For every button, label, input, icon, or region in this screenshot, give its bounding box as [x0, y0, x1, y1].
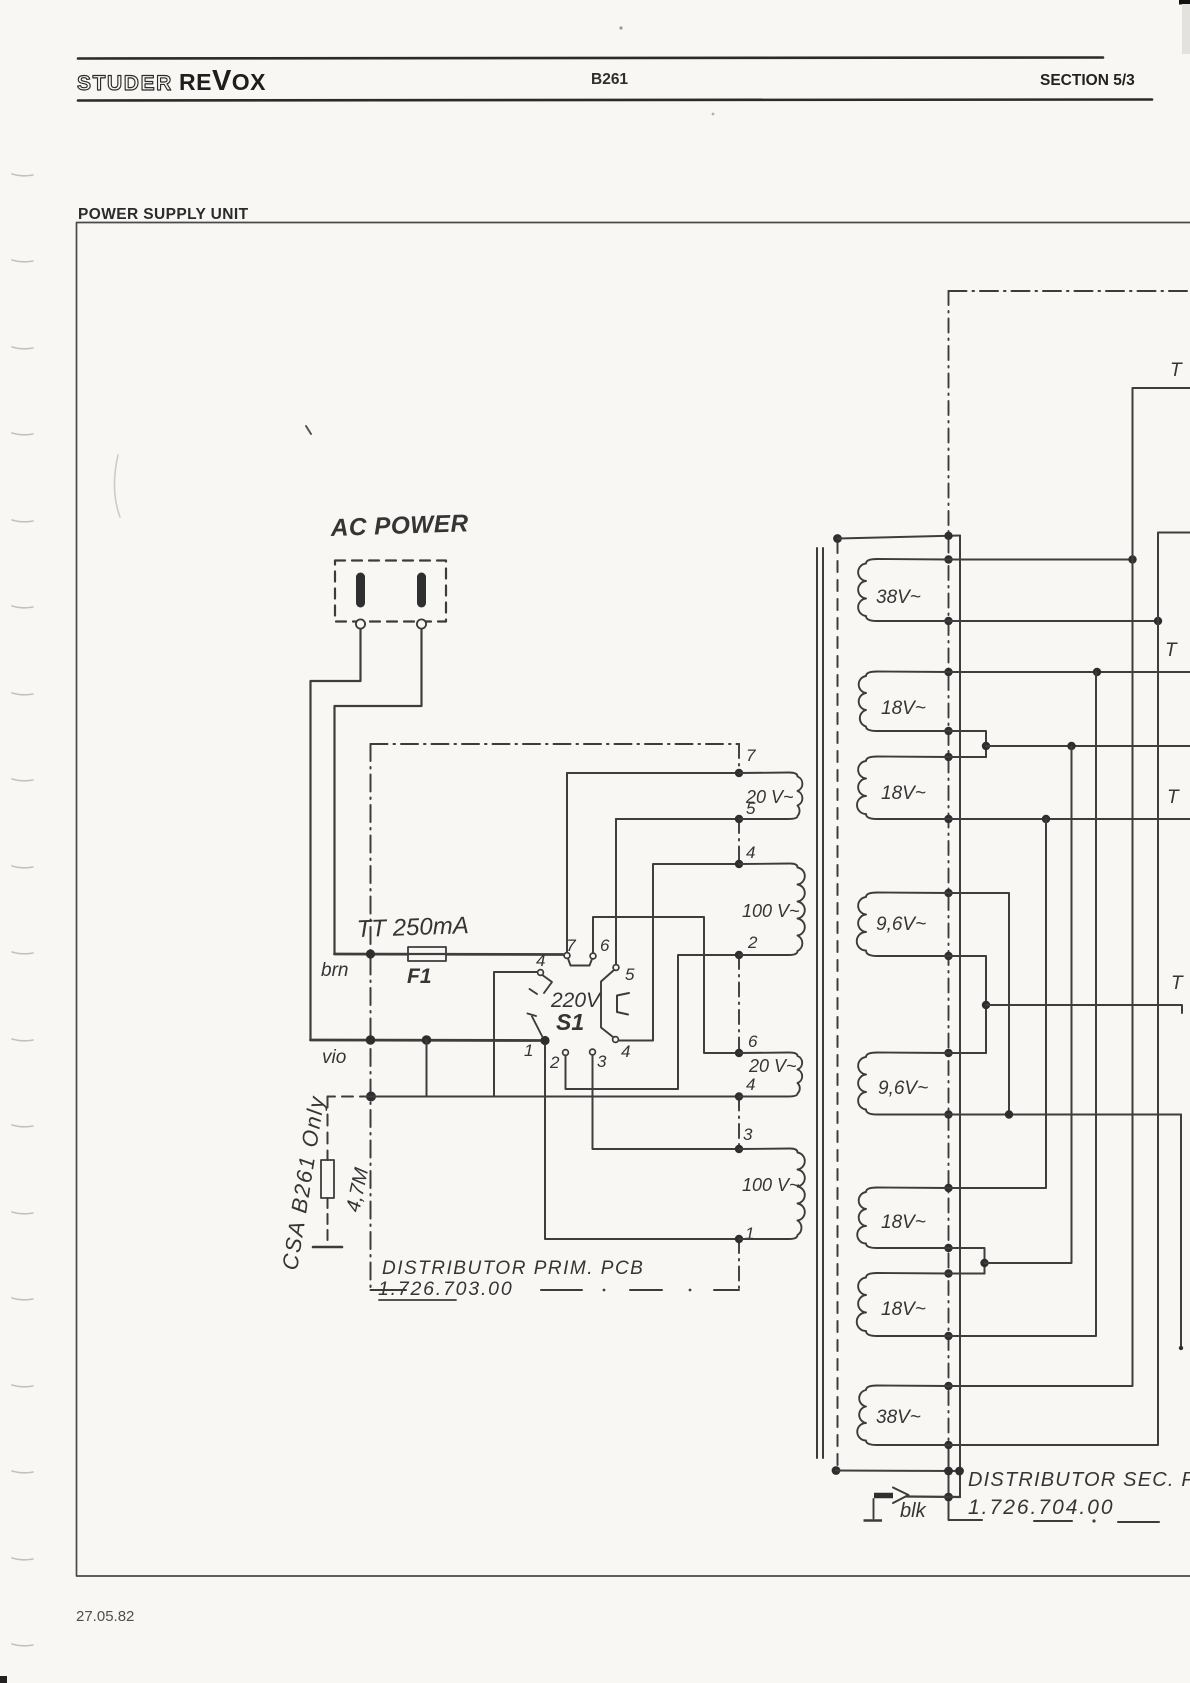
S1 contact 7: [564, 953, 570, 959]
node jumper joint: [980, 1259, 988, 1267]
svg-text:POWER SUPPLY UNIT: POWER SUPPLY UNIT: [78, 206, 249, 223]
svg-text:38V~: 38V~: [876, 587, 921, 608]
wire branch row (exits right): [986, 745, 1190, 747]
wire exit row (ends with stub): [986, 1005, 1182, 1013]
primary pin 5: [735, 815, 743, 823]
svg-text:6: 6: [748, 1032, 758, 1051]
sec pin 18V-4 bottom: [944, 1332, 952, 1340]
wire vio branch down to row 4: [371, 1040, 427, 1097]
scan speck: [712, 113, 715, 116]
svg-text:4: 4: [621, 1042, 630, 1061]
sec pin 38V-1 top: [944, 555, 952, 563]
screen top node: [833, 534, 842, 543]
underline under 1.726.: [379, 1299, 456, 1301]
svg-text:blk: blk: [900, 1500, 927, 1522]
wire 18V-2 bottom row (exits right): [949, 818, 1190, 820]
wire 38V-1 top row to T-bus: [949, 559, 1133, 561]
winding 38V-2 coil: [857, 1386, 948, 1446]
pin 2 terminal circle: [417, 619, 426, 628]
primary terminal axis (dash-dot, box right edge): [738, 744, 740, 1290]
core lamination line 2: [822, 548, 824, 1458]
svg-text:2: 2: [747, 933, 758, 952]
svg-text:DISTRIBUTOR PRIM. PCB: DISTRIBUTOR PRIM. PCB: [382, 1258, 644, 1279]
sec pin 18V-1 top: [944, 668, 952, 676]
wire 9,6V-1 top to down-bus: [949, 893, 1010, 1115]
pin 1 terminal circle: [356, 619, 365, 628]
S1 contact 4 (bottom right): [613, 1037, 619, 1043]
link contacts 5-4 (right): [601, 970, 614, 1037]
svg-text:3: 3: [743, 1125, 753, 1144]
svg-text:7: 7: [746, 746, 756, 765]
svg-text:4: 4: [746, 843, 755, 862]
wire 38V-1 bottom row to T-bus: [949, 620, 1159, 622]
primary winding 100V (3-1): [739, 1149, 805, 1240]
svg-text:TT 250mA: TT 250mA: [356, 912, 469, 943]
wire vio row: [311, 1039, 542, 1042]
svg-text:STUDER: STUDER: [77, 72, 173, 95]
svg-text:vio: vio: [322, 1047, 346, 1068]
S1 contact 3: [590, 1049, 596, 1055]
bottom-left corner black mark: [0, 1676, 7, 1683]
node at 1009: [1005, 1110, 1013, 1118]
scan speck: [619, 26, 622, 29]
primary pin 4: [735, 860, 743, 868]
wire 18V-2 top lead: [949, 756, 987, 758]
svg-text:DISTRIBUTOR SEC. PC: DISTRIBUTOR SEC. PC: [968, 1469, 1190, 1491]
svg-text:100 V~: 100 V~: [742, 901, 800, 921]
primary pin 1: [735, 1235, 743, 1243]
node vio branch: [422, 1035, 432, 1045]
node CSA tap on box edge: [366, 1092, 376, 1102]
winding 18V-1 coil: [859, 672, 949, 732]
primary pin 4': [735, 1092, 743, 1100]
screen bottom node: [832, 1466, 841, 1475]
svg-text:4: 4: [746, 1075, 755, 1094]
box top edge: [371, 743, 740, 745]
sec pin 9,6V-2 bottom: [944, 1110, 952, 1118]
box top edge: [949, 290, 1190, 292]
wire screen top to bus: [838, 536, 961, 539]
ground (CSA): [313, 1246, 342, 1249]
sec pin 18V-4 top: [944, 1269, 952, 1277]
sec pin 18V-1 bottom: [944, 727, 952, 735]
wire S1-7 riser to primary pin 7: [566, 773, 568, 953]
node exit joint: [982, 1001, 990, 1009]
svg-text:3: 3: [597, 1052, 607, 1071]
sec pin 38V-2 bottom: [944, 1441, 952, 1449]
wire S1-4 (top left) to row 4: [494, 972, 538, 1097]
rotor arm at contact 4: [543, 976, 552, 994]
dashed wire to resistor: [328, 1096, 372, 1098]
svg-text:18V~: 18V~: [881, 783, 926, 804]
S1 contact 6: [590, 953, 596, 959]
svg-text:1.726.704.00: 1.726.704.00: [968, 1496, 1115, 1519]
schematic frame: [77, 223, 1190, 1577]
node at 1134: [1128, 555, 1136, 563]
svg-text:18V~: 18V~: [881, 1299, 926, 1320]
sec pin 18V-2 top: [944, 753, 952, 761]
svg-text:9,6V~: 9,6V~: [878, 1078, 928, 1099]
wire 18V-4 top to jumper: [949, 1273, 985, 1275]
winding 18V-4 coil: [857, 1273, 949, 1336]
svg-text:1.726.703.00: 1.726.703.00: [378, 1278, 513, 1300]
svg-text:SECTION 5/3: SECTION 5/3: [1040, 72, 1135, 89]
switch position bracket mark: [617, 993, 629, 1015]
bus vertical (screen/ground bus): [959, 536, 961, 1498]
S1 contact 4 (top left): [538, 970, 544, 976]
S1 contact 2: [563, 1050, 569, 1056]
wire blk row: [906, 1495, 960, 1498]
primary pin 7: [735, 769, 743, 777]
rotor arm at contact 1: [532, 1017, 542, 1037]
wire pin2 to vio node: [335, 629, 422, 953]
wire 18V-1 top row (exits right): [949, 671, 1190, 673]
S1 contact 1 (node, vio): [540, 1036, 549, 1045]
node axis bottom row: [944, 1467, 953, 1476]
node at 1097: [1093, 668, 1101, 676]
box left edge: [370, 744, 372, 1290]
svg-text:18V~: 18V~: [881, 1212, 926, 1233]
box left edge / secondary terminal axis: [948, 291, 950, 1442]
svg-text:4,7M: 4,7M: [342, 1166, 373, 1214]
node vio/box junction: [366, 1035, 376, 1045]
AC plug connector J1 (dashed outline): [335, 561, 446, 622]
underline dashes: [1034, 1520, 1072, 1522]
svg-text:brn: brn: [321, 960, 348, 981]
stub down at right: [1180, 1115, 1182, 1349]
sec pin 18V-3 top: [944, 1184, 952, 1192]
winding 9,6V-2 coil: [858, 1053, 948, 1115]
axis bottom solid segment: [949, 1445, 983, 1520]
svg-text:REVOX: REVOX: [179, 65, 266, 97]
jumper 9,6V-1 bottom down: [949, 956, 987, 1053]
sec pin 18V-3 bottom: [944, 1244, 952, 1252]
svg-text:20 V~: 20 V~: [748, 1056, 797, 1076]
wire screen bottom to bus: [836, 1470, 960, 1473]
plug pin 1 (live blade): [356, 577, 365, 603]
plug pin 2 (neutral blade): [417, 577, 426, 603]
corner registration black mark top right: [1179, 0, 1190, 5]
svg-text:4: 4: [536, 951, 545, 970]
node at 1158: [1154, 617, 1162, 625]
svg-text:5: 5: [625, 965, 635, 984]
svg-text:F1: F1: [407, 965, 432, 988]
dashed wire resistor to ground: [327, 1198, 329, 1244]
node bus at bottom row: [955, 1467, 964, 1476]
svg-text:6: 6: [600, 936, 610, 955]
chassis ground (blk): [873, 1499, 875, 1519]
svg-text:27.05.82: 27.05.82: [76, 1608, 134, 1625]
node jumper joint: [982, 742, 990, 750]
svg-text:1: 1: [745, 1224, 754, 1243]
svg-text:38V~: 38V~: [876, 1407, 921, 1428]
svg-text:9,6V~: 9,6V~: [876, 914, 926, 935]
wire jumper row to up-bus: [985, 746, 1072, 1263]
stray pen tick: [306, 426, 311, 434]
box bottom edge: [371, 1289, 407, 1291]
wire primary row 7: [567, 772, 739, 774]
primary pin 6: [735, 1049, 743, 1057]
node at 1071: [1067, 742, 1075, 750]
wire pin1 to brn node: [311, 629, 361, 1039]
node bus top: [944, 532, 952, 540]
wire S1-1 to primary pin 1: [545, 1045, 739, 1239]
primary winding 20V (6-4'): [739, 1053, 802, 1097]
node brn/box junction: [366, 949, 375, 958]
link contacts 7-6: [568, 959, 592, 966]
electrostatic screen (dashed): [837, 542, 839, 1468]
svg-text:T: T: [1171, 973, 1184, 994]
wire 9,6V-2 bottom row: [949, 1114, 1182, 1116]
winding 18V-3 coil: [857, 1188, 948, 1249]
header top rule: [78, 58, 1103, 59]
primary winding 20V (7-5): [739, 773, 802, 820]
primary pin 3: [735, 1145, 743, 1153]
winding 18V-2 coil: [857, 757, 949, 820]
core lamination line 1: [816, 548, 818, 1458]
arrow on blk wire: [893, 1488, 909, 1504]
wire S1-2 to primary pin 2: [566, 955, 740, 1089]
svg-text:T: T: [1167, 787, 1180, 808]
wire S1-4 (bottom right) to primary pin 4: [619, 864, 740, 1041]
wire 38V-2 top to up-bus, exits right at top: [949, 388, 1190, 1386]
wire row 4 to primary pin 4': [371, 1096, 739, 1098]
wire primary row 5: [616, 818, 739, 820]
svg-text:18V~: 18V~: [881, 698, 926, 719]
wire 18V-4 bottom to up-bus: [949, 672, 1097, 1336]
header bottom rule: [78, 100, 1152, 101]
sec pin 9,6V-2 top: [944, 1049, 952, 1057]
node at 1046: [1042, 815, 1050, 823]
svg-text:T: T: [1165, 640, 1178, 661]
sec pin 38V-2 top: [944, 1382, 952, 1390]
wire S1-6 to primary pin 6: [593, 917, 739, 1053]
primary winding 100V (4-2): [739, 864, 805, 956]
winding 9,6V-1 coil: [857, 893, 949, 957]
svg-text:20 V~: 20 V~: [745, 787, 794, 807]
wire S1-5 riser to primary pin 5: [615, 819, 617, 965]
svg-text:2: 2: [549, 1053, 560, 1072]
wire brn row: [335, 953, 564, 956]
resistor 4,7M: [321, 1160, 334, 1198]
sec pin 18V-2 bottom: [944, 815, 952, 823]
sec pin 9,6V-1 top: [944, 889, 952, 897]
fuse F1 (TT 250mA): [408, 947, 446, 961]
svg-text:B261: B261: [591, 71, 628, 88]
winding 38V-1 coil: [858, 559, 948, 621]
svg-text:AC POWER: AC POWER: [329, 510, 469, 542]
binder edge tick marks (scan artifacts): [12, 174, 120, 1646]
wire 18V-3 top to up-bus: [949, 819, 1047, 1188]
wire 9,6V-2 top to jumper: [949, 1052, 987, 1054]
svg-text:1: 1: [524, 1041, 533, 1060]
svg-text:T: T: [1170, 360, 1183, 381]
S1 contact 5: [613, 965, 619, 971]
node axis blk row: [944, 1493, 953, 1502]
sec pin 9,6V-1 bottom: [944, 952, 952, 960]
svg-text:100 V~: 100 V~: [742, 1175, 800, 1195]
primary pin 2: [735, 951, 743, 959]
jumper 18V-3 bottom to 18V-4 top: [949, 1248, 985, 1274]
wire S1-3 to primary pin 3: [593, 1055, 740, 1149]
jumper 18V-1 bottom to 18V-2 top: [949, 731, 987, 757]
sec pin 38V-1 bottom: [944, 617, 952, 625]
wire 38V-2 bottom to up-bus, exits right: [949, 533, 1190, 1446]
svg-text:S1: S1: [556, 1009, 584, 1035]
